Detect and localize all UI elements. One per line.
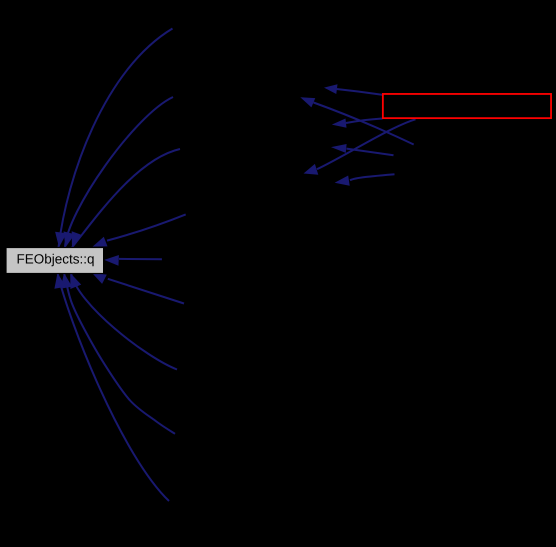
wire edge caller5 -> FEObjects::q bbox=[119, 258, 162, 260]
wire edge r3 -> m5 bbox=[347, 149, 394, 156]
wire edge caller7 -> FEObjects::q bbox=[71, 273, 177, 370]
node FEObjects::q (current node, gray) bbox=[6, 248, 104, 274]
wire edge rednode -> m3 bbox=[346, 119, 383, 124]
wire edge rednode -> m4 bbox=[317, 119, 416, 169]
arrowhead edge caller5 -> FEObjects::q bbox=[104, 255, 119, 266]
arrowhead edge rednode -> m3 bbox=[332, 119, 347, 128]
arrowhead edge caller8 -> FEObjects::q bbox=[61, 273, 73, 289]
arrowhead edge caller9 -> FEObjects::q bbox=[54, 273, 65, 289]
arrowhead edge caller4 -> FEObjects::q bbox=[93, 237, 108, 247]
arrowhead edge caller2 -> FEObjects::q bbox=[64, 231, 75, 247]
wire edge caller2 -> FEObjects::q bbox=[65, 97, 173, 247]
arrowhead edge r2 -> m2 bbox=[300, 97, 315, 107]
wire edge r2 -> m2 bbox=[314, 103, 414, 145]
arrowhead edge caller6 -> FEObjects::q bbox=[92, 273, 107, 284]
svg-text:FEObjects::q: FEObjects::q bbox=[16, 251, 94, 266]
wire edge caller6 -> FEObjects::q bbox=[108, 279, 184, 304]
arrowhead edge r3 -> m6 bbox=[335, 176, 350, 186]
arrowhead edge caller3 -> FEObjects::q bbox=[72, 231, 83, 247]
arrowhead edge r3 -> m5 bbox=[331, 144, 347, 153]
arrowhead edge caller1 -> FEObjects::q bbox=[55, 232, 67, 248]
wire edge rednode -> m1 bbox=[337, 89, 383, 95]
node highlighted red (truncated callers) bbox=[383, 94, 551, 118]
wire edge caller3 -> FEObjects::q bbox=[72, 149, 180, 247]
arrowhead edge caller7 -> FEObjects::q bbox=[70, 273, 81, 289]
wire edge caller9 -> FEObjects::q bbox=[58, 273, 170, 501]
arrowhead edge rednode -> m4 bbox=[304, 164, 319, 175]
wire edge caller1 -> FEObjects::q bbox=[59, 29, 173, 248]
wire edge caller4 -> FEObjects::q bbox=[107, 214, 186, 240]
arrowhead edge rednode -> m1 bbox=[324, 84, 338, 94]
wire edge caller8 -> FEObjects::q bbox=[64, 273, 175, 434]
wire edge r3 -> m6 bbox=[350, 174, 395, 180]
